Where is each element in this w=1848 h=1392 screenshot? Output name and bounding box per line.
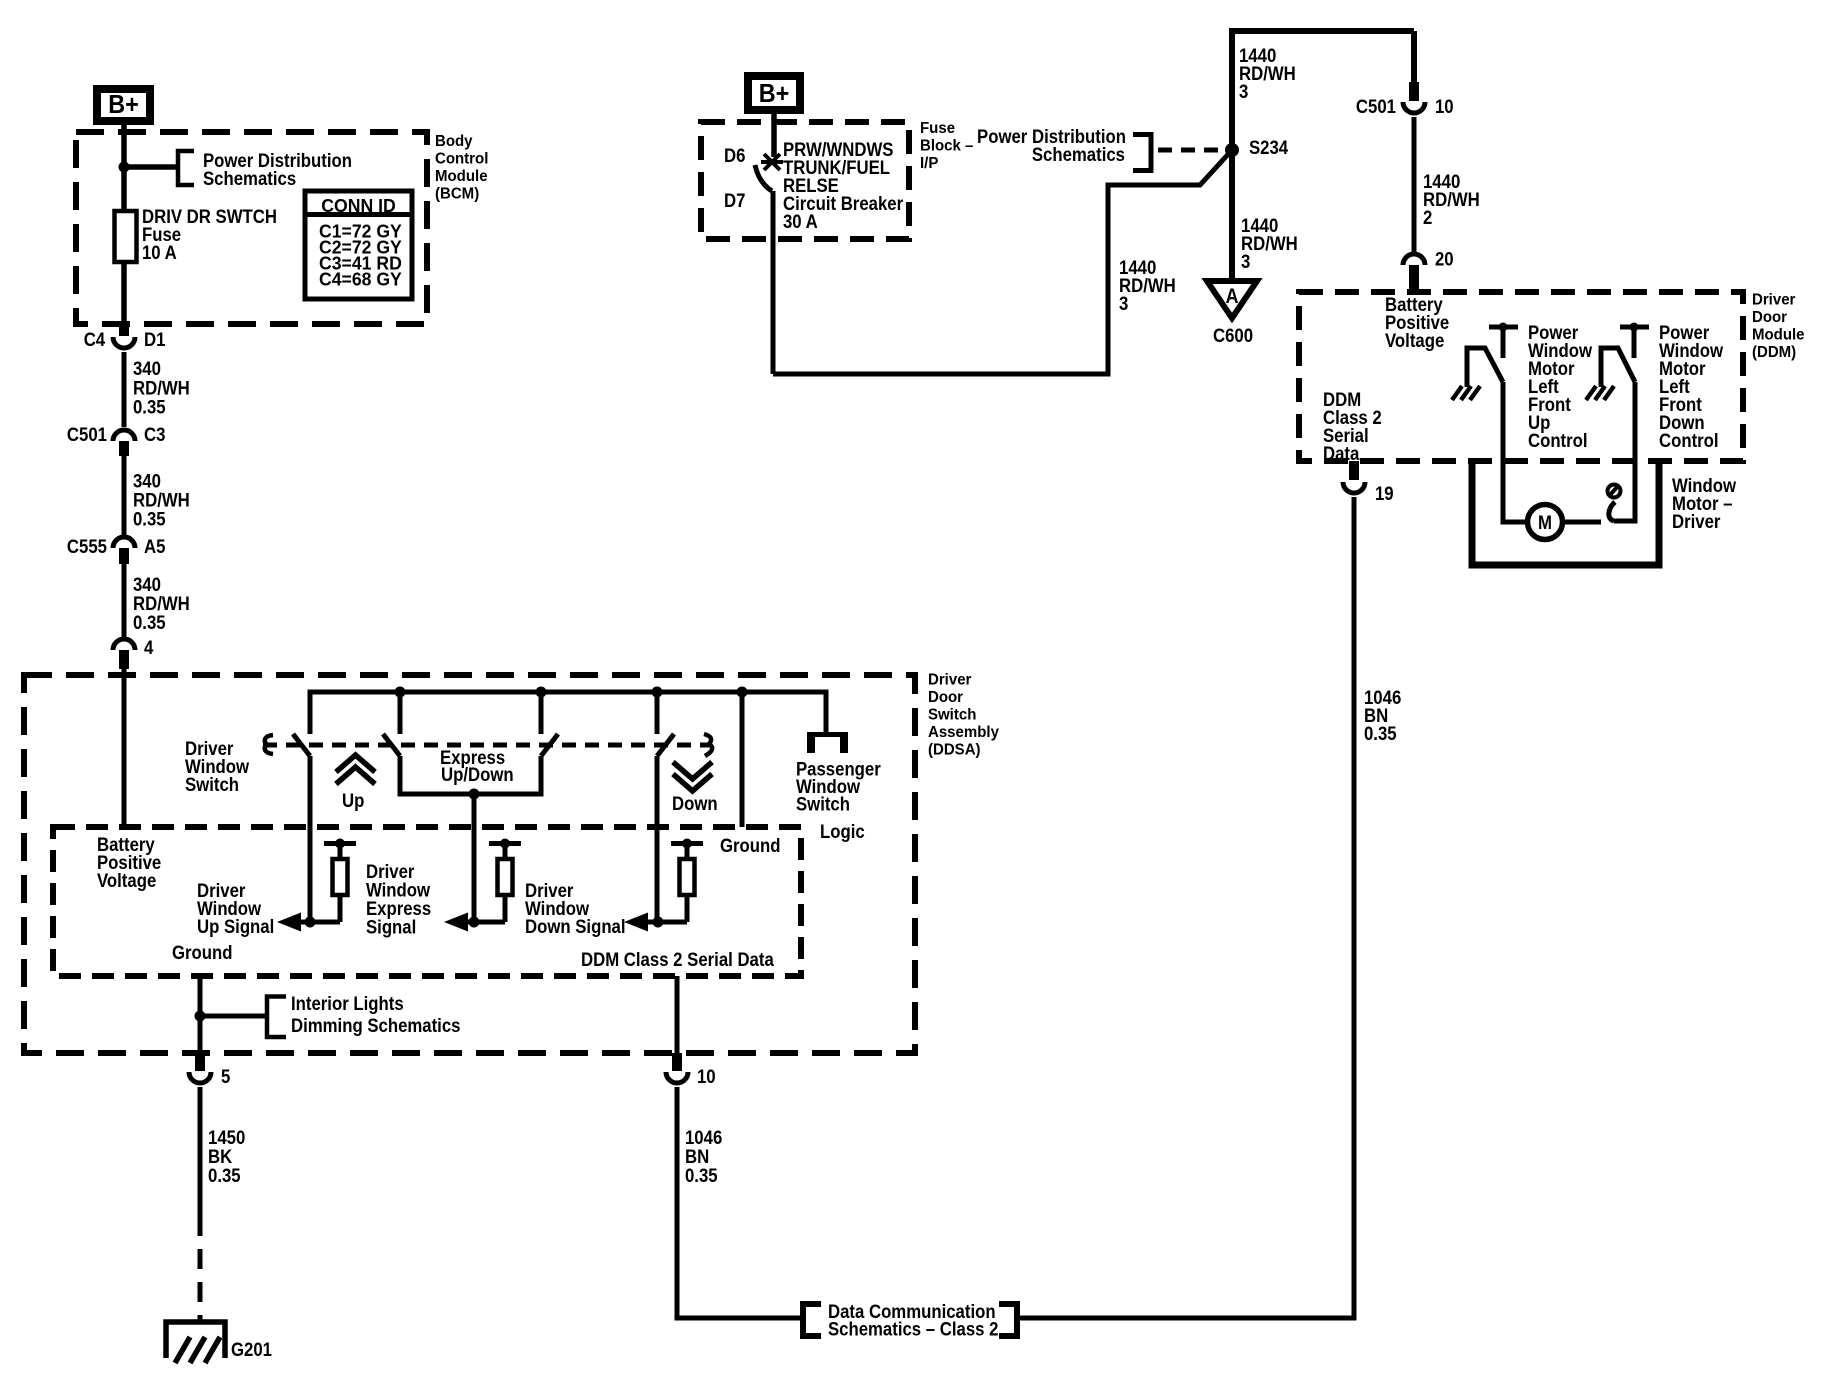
svg-text:Body: Body: [435, 133, 473, 150]
svg-text:B+: B+: [108, 91, 139, 119]
svg-text:Fuse: Fuse: [920, 120, 955, 137]
svg-text:Module: Module: [435, 168, 488, 185]
svg-text:DDM Class 2 Serial Data: DDM Class 2 Serial Data: [581, 949, 775, 970]
svg-text:340: 340: [133, 358, 161, 379]
svg-text:C600: C600: [1213, 325, 1253, 346]
svg-text:10: 10: [1435, 96, 1454, 117]
svg-text:C4=68 GY: C4=68 GY: [319, 269, 402, 289]
svg-text:Driver: Driver: [1752, 292, 1795, 309]
svg-text:C4: C4: [84, 329, 106, 350]
svg-text:Assembly: Assembly: [928, 724, 999, 741]
svg-text:Up/Down: Up/Down: [441, 764, 514, 785]
svg-text:Control: Control: [1659, 430, 1719, 451]
svg-text:0.35: 0.35: [685, 1165, 718, 1186]
svg-text:Interior Lights: Interior Lights: [291, 993, 404, 1014]
svg-text:Ground: Ground: [720, 835, 780, 856]
svg-text:0.35: 0.35: [133, 612, 166, 633]
svg-text:Schematics: Schematics: [1032, 144, 1125, 165]
svg-text:0.35: 0.35: [133, 396, 166, 417]
svg-text:(BCM): (BCM): [435, 185, 479, 202]
svg-text:30 A: 30 A: [783, 211, 818, 232]
svg-text:D6: D6: [724, 145, 745, 166]
svg-text:10 A: 10 A: [142, 242, 177, 263]
svg-text:D1: D1: [144, 329, 165, 350]
svg-text:Switch: Switch: [928, 707, 976, 724]
svg-text:Block –: Block –: [920, 138, 974, 155]
svg-text:5: 5: [221, 1066, 230, 1087]
svg-text:C501: C501: [1356, 96, 1396, 117]
svg-text:B+: B+: [759, 80, 790, 108]
svg-text:C501: C501: [67, 424, 107, 445]
svg-text:G201: G201: [231, 1339, 272, 1360]
svg-text:A5: A5: [144, 536, 165, 557]
svg-text:20: 20: [1435, 248, 1454, 269]
svg-text:Logic: Logic: [820, 821, 865, 842]
svg-text:10: 10: [697, 1066, 716, 1087]
svg-text:Voltage: Voltage: [1385, 330, 1444, 351]
svg-text:3: 3: [1119, 293, 1128, 314]
svg-text:Dimming Schematics: Dimming Schematics: [291, 1015, 460, 1036]
svg-text:2: 2: [1423, 207, 1432, 228]
svg-text:C555: C555: [67, 536, 107, 557]
svg-text:S234: S234: [1249, 137, 1289, 158]
svg-text:19: 19: [1375, 483, 1394, 504]
svg-text:(DDM): (DDM): [1752, 344, 1796, 361]
svg-text:C3: C3: [144, 424, 165, 445]
svg-text:Driver: Driver: [1672, 511, 1720, 532]
svg-text:D7: D7: [724, 190, 745, 211]
svg-text:(DDSA): (DDSA): [928, 742, 981, 759]
svg-text:Down: Down: [672, 793, 718, 814]
svg-text:Control: Control: [435, 150, 488, 167]
svg-text:Switch: Switch: [185, 774, 239, 795]
svg-text:0.35: 0.35: [208, 1165, 241, 1186]
svg-text:3: 3: [1241, 251, 1250, 272]
svg-text:Signal: Signal: [366, 916, 416, 937]
svg-text:Voltage: Voltage: [97, 870, 156, 891]
svg-text:0.35: 0.35: [1364, 723, 1397, 744]
svg-text:CONN ID: CONN ID: [321, 196, 396, 216]
svg-text:Control: Control: [1528, 430, 1588, 451]
svg-text:Switch: Switch: [796, 793, 850, 814]
svg-text:4: 4: [144, 637, 154, 658]
svg-text:Up Signal: Up Signal: [197, 916, 274, 937]
svg-text:A: A: [1225, 285, 1238, 309]
svg-text:0.35: 0.35: [133, 508, 166, 529]
svg-text:Module: Module: [1752, 327, 1805, 344]
svg-text:Door: Door: [928, 689, 963, 706]
svg-text:Schematics – Class 2: Schematics – Class 2: [828, 1318, 998, 1339]
svg-text:Door: Door: [1752, 309, 1787, 326]
svg-text:Schematics: Schematics: [203, 168, 296, 189]
svg-text:Up: Up: [342, 790, 364, 811]
svg-text:Driver: Driver: [928, 672, 971, 689]
svg-text:3: 3: [1239, 81, 1248, 102]
svg-text:Ground: Ground: [172, 942, 232, 963]
svg-text:Down Signal: Down Signal: [525, 916, 626, 937]
svg-text:M: M: [1538, 512, 1552, 533]
svg-text:I/P: I/P: [920, 155, 938, 172]
